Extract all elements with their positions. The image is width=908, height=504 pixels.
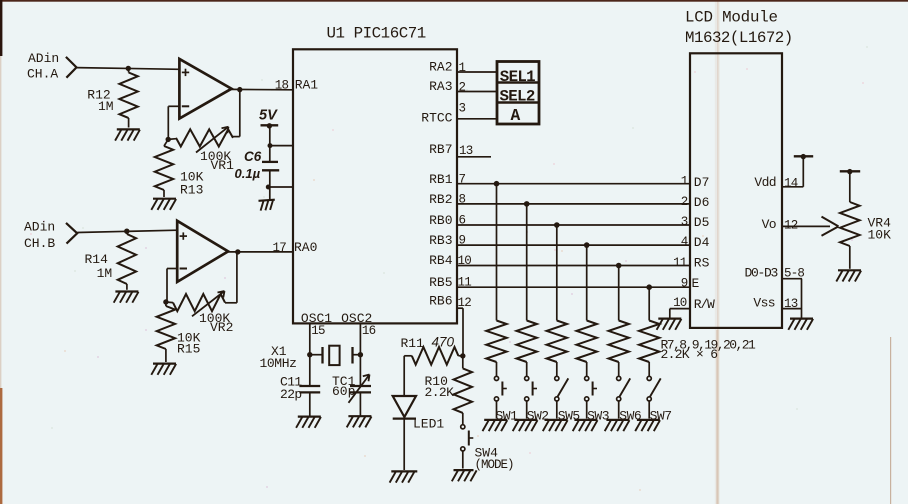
U1 pin RB3 label: [429, 233, 452, 248]
crystal X1 10MHz: [260, 344, 361, 371]
svg-text:D4: D4: [694, 235, 710, 250]
resistor R12 1M: [87, 68, 138, 127]
potentiometer VR1 100K: [168, 90, 240, 173]
U1 pin 3 number: [459, 102, 466, 116]
svg-text:3: 3: [681, 215, 688, 229]
svg-text:D5: D5: [694, 215, 710, 230]
U1 pin RA3 label: [429, 79, 452, 94]
LED LED1: [393, 356, 445, 470]
svg-text:1M: 1M: [97, 266, 113, 281]
svg-text:1: 1: [459, 61, 466, 75]
U1 pin OSC1 label: [301, 311, 332, 326]
LCD pin D7 label: [694, 175, 710, 190]
LCD pin D6 label: [694, 195, 710, 210]
ground at R15: [151, 364, 176, 375]
svg-text:10MHz: 10MHz: [260, 356, 297, 371]
wire RB1 pin7 to LCD D7: [457, 183, 690, 185]
wire R20 column: [618, 266, 620, 321]
U1 pin 10 number: [458, 254, 472, 268]
wire LCD Vss pin13 to ground: [782, 308, 802, 310]
wire R19 column: [586, 245, 588, 320]
wire RB0 pin6 to LCD D5: [457, 224, 690, 226]
wire LCD R/W pin10 to ground: [670, 309, 690, 319]
wire R9 column: [556, 225, 558, 321]
svg-text:U1 PIC16C71: U1 PIC16C71: [327, 25, 426, 43]
U1 pin 15 number: [311, 324, 325, 338]
node on RB5 pin11 line: [646, 284, 652, 290]
wire RB2 pin8 to LCD D6: [457, 203, 690, 205]
LCD pin 4 number: [681, 235, 688, 249]
U1 pin 9 number: [459, 234, 466, 248]
svg-text:C6: C6: [244, 149, 262, 164]
wire SW1 to ground: [496, 401, 498, 419]
svg-text:2.2K: 2.2K: [425, 385, 455, 400]
+5V rail bar at VR4: [840, 169, 860, 174]
ground at SW1: [483, 420, 508, 431]
ground at SW6: [605, 420, 630, 431]
LCD pin Vo label: [762, 217, 776, 232]
svg-text:3: 3: [459, 102, 466, 116]
resistor R14 1M: [85, 231, 137, 290]
svg-text:SEL2: SEL2: [500, 88, 535, 106]
label R7,8,9,19,20,21 2.2K x 6: [661, 338, 757, 362]
resistor R10 2.2K: [425, 356, 473, 425]
connector box SEL1/SEL2/A: [497, 62, 539, 126]
wire VR4 top: [849, 172, 851, 202]
svg-text:R/W: R/W: [694, 297, 715, 312]
svg-text:22p: 22p: [280, 387, 302, 402]
svg-text:RB0: RB0: [429, 213, 452, 228]
U1 pin 12 number: [458, 296, 472, 310]
wire RTCC pin3 to A: [457, 118, 497, 120]
ground at SW2: [513, 420, 538, 431]
node feedback A junction: [166, 137, 171, 142]
svg-text:1M: 1M: [98, 99, 114, 114]
wire RB6 pin12 down: [457, 308, 463, 356]
U1 pin 17 number: [273, 241, 287, 255]
svg-text:10K: 10K: [868, 228, 892, 243]
node on RB3 pin9 line: [584, 242, 590, 248]
svg-text:CH.A: CH.A: [27, 67, 58, 82]
node OSC2 junction: [358, 352, 363, 357]
ground at LCD Vss: [788, 319, 813, 330]
svg-text:RTCC: RTCC: [421, 110, 452, 125]
potentiometer VR4 10K: [840, 202, 891, 246]
wire RB3 pin9 to LCD D4: [457, 244, 690, 246]
ground at C6 (sketched): [259, 200, 275, 211]
node CH.A input junction: [126, 66, 131, 71]
wire VR4 bottom: [849, 246, 851, 269]
switch SW5: [555, 376, 580, 423]
wire RA3 pin2 to SEL2: [457, 91, 497, 93]
svg-text:4: 4: [681, 235, 688, 249]
U1 pin RA0 label: [294, 240, 317, 255]
svg-text:Vo: Vo: [762, 217, 776, 232]
U1 pin OSC2 label: [341, 311, 372, 326]
svg-text:CH.B: CH.B: [24, 236, 55, 251]
switch SW1: [494, 376, 518, 423]
svg-text:RB7: RB7: [429, 142, 452, 157]
wire SW3 to ground: [586, 401, 588, 419]
svg-text:ADin: ADin: [28, 51, 59, 66]
resistor R9 2.2K: [547, 321, 567, 377]
svg-text:1: 1: [681, 175, 688, 189]
U1 pin RB0 label: [429, 213, 452, 228]
node feedback B junction: [163, 299, 168, 304]
U1 pin RB5 label: [429, 275, 452, 290]
node on RB2 pin8 line: [524, 201, 530, 207]
+5V supply: [259, 108, 278, 129]
svg-text:17: 17: [273, 241, 287, 255]
svg-text:M1632(L1672): M1632(L1672): [685, 29, 793, 47]
svg-text:(MODE): (MODE): [475, 458, 514, 472]
node on RB1 pin7 line: [494, 181, 500, 187]
svg-text:Vss: Vss: [753, 295, 775, 310]
ground at C11: [296, 417, 321, 428]
svg-text:5V: 5V: [259, 108, 278, 124]
U1 pin RA1 label: [295, 78, 319, 93]
resistor R7 2.2K: [486, 321, 506, 377]
resistor R20 2.2K: [609, 321, 629, 377]
ground at SW4: [452, 470, 477, 481]
svg-text:RB6: RB6: [429, 294, 452, 309]
LCD pin RS label: [694, 256, 710, 271]
U1 pin 18 number: [275, 79, 289, 93]
LCD pin Vdd label: [754, 175, 776, 190]
wire R21 column: [648, 287, 650, 320]
ground at R14: [114, 292, 139, 303]
U1 pin 6 number: [459, 214, 466, 228]
LCD pin 10 number: [673, 296, 687, 310]
svg-text:Vdd: Vdd: [754, 175, 776, 190]
svg-text:R13: R13: [180, 183, 203, 198]
resistor R19 2.2K: [577, 321, 597, 377]
wire R8 column: [526, 204, 528, 321]
wire D0-D3 pins5-8 tied to Vss: [782, 279, 802, 319]
LCD pin 11 number: [673, 256, 687, 270]
svg-text:RA1: RA1: [295, 78, 319, 93]
wire SW2 to ground: [526, 401, 528, 419]
trimmer capacitor TC1 60p: [332, 374, 371, 416]
capacitor C6 0.1u: [235, 149, 280, 181]
svg-text:RA2: RA2: [429, 60, 452, 75]
svg-text:RA3: RA3: [429, 79, 452, 94]
U1 pin 13 number (RB7): [457, 144, 491, 158]
node op-amp B output: [235, 249, 240, 254]
wire op-amp B output to pin17: [228, 251, 293, 253]
ground at R12: [115, 129, 140, 140]
LCD pin Vss label: [753, 295, 775, 310]
ground at R13: [151, 199, 176, 210]
wire OSC1 pin15: [309, 323, 311, 386]
svg-text:12: 12: [784, 218, 798, 232]
LCD pin D0-D3 label: [744, 266, 777, 281]
node OSC1 junction: [307, 352, 312, 357]
LCD pin R/W label: [694, 297, 715, 312]
capacitor C11 22p: [280, 375, 320, 416]
ground at LED1: [390, 471, 418, 482]
LCD pin 12 number: [784, 218, 798, 232]
wire RB5 pin11 to LCD E: [457, 286, 690, 288]
wire op-amp B feedback: [167, 269, 177, 303]
wire SW5 to ground: [556, 401, 558, 419]
switch SW7: [647, 376, 671, 423]
node on RB4 pin10 line: [616, 263, 622, 269]
U1 pin 11 number: [458, 276, 472, 290]
op-amp U-A: [179, 59, 231, 119]
LCD pin 13 number: [784, 297, 798, 311]
+5V rail bar at Vdd: [794, 154, 813, 159]
svg-text:D6: D6: [694, 195, 710, 210]
LCD pin 2 number: [681, 195, 688, 209]
resistor R13 10K: [155, 139, 204, 197]
switch SW2: [525, 376, 549, 423]
wire OSC2 pin16: [359, 323, 361, 386]
resistor R21 2.2K: [639, 321, 659, 377]
svg-text:ADin: ADin: [24, 220, 55, 235]
svg-text:13: 13: [459, 144, 473, 158]
resistor R15 10K: [157, 302, 201, 362]
U1 pin 16 number: [362, 324, 376, 338]
svg-text:14: 14: [784, 176, 798, 190]
LCD module body: [685, 9, 793, 328]
svg-text:15: 15: [311, 324, 325, 338]
potentiometer VR2 100K: [166, 252, 237, 335]
svg-text:LCD Module: LCD Module: [685, 9, 778, 27]
wire LCD Vo pin12 to VR4 wiper: [782, 217, 839, 236]
svg-text:11: 11: [673, 256, 687, 270]
U1 pin RB6 label: [429, 294, 452, 309]
switch SW6: [617, 376, 642, 423]
svg-text:LED1: LED1: [413, 417, 444, 432]
wire op-amp A output to pin18: [232, 88, 294, 90]
svg-text:RB2: RB2: [429, 192, 452, 207]
svg-text:9: 9: [681, 277, 688, 291]
svg-text:RS: RS: [694, 256, 710, 271]
LCD pin 5-8 number: [784, 267, 804, 281]
node op-amp A output: [237, 87, 242, 92]
node CH.B input junction: [124, 229, 129, 234]
U1 pin RB7 label: [429, 142, 452, 157]
input terminal ADin CH.A: [27, 51, 77, 82]
svg-text:RB3: RB3: [429, 233, 452, 248]
svg-text:2: 2: [681, 195, 688, 209]
pushbutton SW4 (MODE): [461, 425, 514, 472]
U1 pin RB2 label: [429, 192, 452, 207]
LCD pin 3 number: [681, 215, 688, 229]
wire LCD Vdd pin14 to +5V rail: [782, 156, 803, 187]
svg-text:16: 16: [362, 324, 376, 338]
LCD pin 9 number: [681, 277, 688, 291]
svg-text:D7: D7: [694, 175, 710, 190]
svg-text:D0-D3: D0-D3: [744, 266, 777, 281]
wire SW7 to ground: [648, 401, 650, 419]
svg-text:2.2K × 6: 2.2K × 6: [661, 347, 718, 362]
U1 pin RTCC label: [421, 110, 452, 125]
svg-text:VR1: VR1: [211, 158, 235, 173]
switch SW3: [585, 376, 609, 423]
svg-text:R15: R15: [177, 342, 200, 357]
svg-text:A: A: [511, 107, 521, 125]
LCD pin E label: [692, 276, 700, 291]
svg-text:RB5: RB5: [429, 275, 452, 290]
U1 pin 7 number: [459, 172, 466, 186]
ground at SW3: [573, 420, 598, 431]
ground at LCD R/W: [657, 319, 682, 330]
svg-text:VR2: VR2: [210, 320, 233, 335]
LCD pin 14 number: [784, 176, 798, 190]
input terminal ADin CH.B: [24, 220, 77, 252]
svg-text:0.1µ: 0.1µ: [235, 166, 261, 181]
svg-text:RB1: RB1: [429, 172, 453, 187]
LCD pin D4 label: [694, 235, 710, 250]
U1 pin RA2 label: [429, 60, 452, 75]
U1 pin 1 number: [459, 61, 466, 75]
wire SW6 to ground: [618, 401, 620, 419]
wire op-amp A feedback: [168, 106, 179, 139]
op-amp U-B: [177, 221, 228, 282]
svg-text:60p: 60p: [332, 384, 355, 399]
svg-text:SEL1: SEL1: [500, 68, 535, 86]
U1 pin 8 number: [459, 192, 466, 206]
ground at VR4: [836, 270, 861, 281]
wire CH.B input to op-amp: [77, 230, 177, 232]
ground at TC1: [347, 416, 372, 427]
ground at SW5: [543, 420, 568, 431]
svg-text:R14: R14: [85, 252, 109, 267]
svg-text:RA0: RA0: [294, 240, 317, 255]
svg-text:470: 470: [432, 335, 455, 350]
node R11/R10 junction: [460, 353, 465, 358]
wire C6 to ground rail: [266, 170, 293, 199]
LCD pin 1 number: [681, 175, 688, 189]
resistor R11 470: [401, 335, 463, 365]
U1 pin 2 number: [459, 81, 466, 95]
svg-text:E: E: [692, 276, 700, 291]
U1 pin RB4 label: [429, 253, 453, 268]
wire RB4 pin10 to LCD RS: [457, 265, 690, 267]
wire 5V to U1 Vdd: [268, 126, 294, 162]
svg-text:RB4: RB4: [429, 253, 453, 268]
wire RA2 pin1 to SEL1: [457, 71, 497, 73]
wire CH.A input to op-amp: [77, 68, 180, 70]
resistor R8 2.2K: [517, 321, 537, 377]
svg-text:2: 2: [459, 81, 466, 95]
svg-text:R11: R11: [401, 336, 425, 351]
U1 pin RB1 label: [429, 172, 453, 187]
wire R7 column: [496, 184, 498, 321]
ground at SW7: [635, 420, 660, 431]
IC U1 PIC16C71 body: [293, 25, 457, 324]
LCD pin D5 label: [694, 215, 710, 230]
node on RB0 pin6 line: [554, 222, 560, 228]
